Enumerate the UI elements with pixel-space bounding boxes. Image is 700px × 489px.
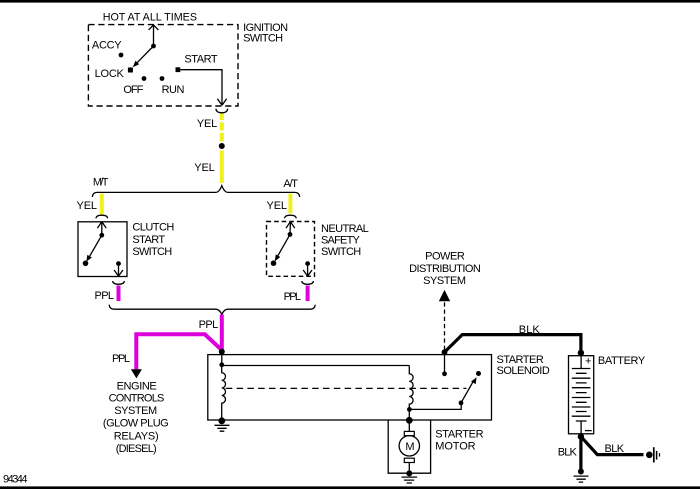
node: PPL junction at solenoid: [219, 349, 225, 355]
wire PPL merged vertical: [220, 315, 224, 351]
svg-text:BATTERY: BATTERY: [598, 355, 646, 367]
solenoid: hold-in winding coil: [409, 366, 413, 420]
node: battery negative junction: [578, 433, 584, 439]
svg-text:SWITCH: SWITCH: [321, 246, 361, 258]
node: pull-in winding ground: [218, 417, 225, 424]
connector female half above neutral safety switch: [285, 215, 297, 218]
starter motor: brush terminal bottom: [404, 458, 414, 462]
svg-text:SWITCH: SWITCH: [243, 33, 283, 45]
svg-text:HOT AT ALL TIMES: HOT AT ALL TIMES: [103, 11, 197, 23]
svg-text:OFF: OFF: [123, 84, 143, 96]
svg-text:YEL: YEL: [267, 200, 288, 212]
node: solenoid contact pivot: [459, 401, 464, 406]
clutch switch: movable arm with arrowhead: [86, 235, 102, 262]
neutral safety switch: output arrow down: [303, 266, 312, 276]
svg-text:SYSTEM: SYSTEM: [423, 275, 466, 287]
svg-text:PPL: PPL: [95, 290, 115, 302]
wire YEL vertical from ignition (solid lower run): [220, 151, 224, 184]
splice node on YEL wire: [219, 143, 225, 149]
solenoid: winding to contact wire: [409, 404, 461, 410]
ignition switch dashed box: [88, 25, 238, 106]
node: starter motor ground: [406, 470, 412, 476]
ground symbol (solenoid): [215, 425, 230, 431]
wire YEL A/T branch: [288, 194, 292, 214]
svg-text:MOTOR: MOTOR: [435, 441, 475, 453]
svg-text:ENGINE: ENGINE: [117, 381, 157, 393]
ignition switch: ACCY contact node: [119, 53, 124, 58]
starter motor: brush terminal top: [404, 431, 414, 435]
ignition switch: wire to HOT with open arrow up: [149, 25, 159, 46]
svg-text:ACCY: ACCY: [92, 40, 122, 52]
node: contact arm tip: [476, 371, 481, 376]
svg-text:STARTER: STARTER: [497, 354, 544, 366]
bottom border bar: [0, 486, 700, 489]
label IGNITION SWITCH: [243, 22, 288, 45]
svg-text:M: M: [405, 441, 414, 453]
node: starter motor feed: [406, 417, 413, 424]
top border bar: [0, 0, 700, 3]
solenoid: battery stub wire: [444, 352, 446, 373]
neutral safety switch dashed box: [267, 222, 315, 277]
dashed mechanical link plunger: [226, 387, 467, 389]
svg-text:+: +: [585, 356, 591, 368]
node: battery positive junction: [578, 350, 584, 356]
svg-text:POWER: POWER: [425, 251, 465, 263]
label STARTER SOLENOID: [497, 354, 550, 377]
connector female half below neutral safety switch: [302, 281, 314, 284]
svg-text:CLUTCH: CLUTCH: [132, 221, 174, 233]
node: ground connection: [578, 469, 584, 475]
svg-text:PPL: PPL: [112, 353, 130, 365]
solenoid: wire to hold-in winding: [222, 365, 409, 367]
clutch switch: arm end node: [83, 261, 89, 267]
ignition switch: LOCK terminal: [128, 68, 133, 73]
svg-text:START: START: [132, 234, 165, 246]
svg-text:SYSTEM: SYSTEM: [114, 405, 157, 417]
ignition switch: RUN contact node: [160, 76, 165, 81]
wire BLK battery cable to solenoid: [445, 335, 581, 352]
svg-text:SOLENOID: SOLENOID: [497, 365, 550, 377]
ignition switch: OFF contact node: [142, 76, 147, 81]
starter motor: ground stub: [408, 463, 410, 474]
brace splitting YEL to M/T and A/T branches: [92, 186, 299, 197]
label POWER DISTRIBUTION SYSTEM: [409, 251, 481, 288]
solenoid: pull-in winding coil: [222, 365, 226, 420]
svg-text:(DIESEL): (DIESEL): [116, 443, 157, 455]
node: battery feed junction: [442, 349, 448, 355]
svg-text:(GLOW PLUG: (GLOW PLUG: [103, 418, 169, 430]
neutral safety switch: output contact node: [305, 261, 310, 266]
clutch switch: output arrow down: [114, 266, 123, 276]
node: battery-side fixed contact: [442, 371, 447, 376]
battery box: [569, 356, 594, 434]
connector: engine block terminal: [646, 447, 660, 462]
svg-text:DISTRIBUTION: DISTRIBUTION: [409, 263, 481, 275]
svg-text:SAFETY: SAFETY: [321, 235, 361, 247]
svg-text:NEUTRAL: NEUTRAL: [321, 223, 369, 235]
wire PPL from clutch switch: [117, 286, 121, 302]
svg-text:94344: 94344: [3, 474, 28, 486]
battery plates: [572, 369, 591, 422]
label NEUTRAL SAFETY SWITCH: [321, 223, 369, 258]
starter motor M body: [399, 436, 419, 456]
svg-text:STARTER: STARTER: [435, 429, 483, 441]
wire YEL vertical from ignition (dashed upper run): [220, 114, 224, 142]
ignition switch: START terminal: [176, 67, 181, 72]
svg-text:YEL: YEL: [197, 118, 218, 130]
starter motor: feed stub: [408, 420, 410, 431]
arrowhead to power distribution system: [439, 290, 450, 301]
wire PPL branch to engine controls: [136, 334, 221, 369]
ground symbol (battery): [574, 476, 589, 482]
brace merging PPL branches: [109, 305, 315, 315]
dashed wire to power distribution system: [444, 302, 446, 350]
connector C1 female half (below ignition box): [216, 109, 228, 113]
svg-text:SWITCH: SWITCH: [132, 246, 172, 258]
svg-text:PPL: PPL: [199, 319, 219, 331]
svg-text:A/T: A/T: [283, 178, 298, 190]
neutral safety switch: arm end node: [271, 260, 277, 266]
arrowhead to engine controls system: [131, 369, 142, 378]
svg-text:RELAYS): RELAYS): [114, 430, 159, 442]
svg-text:PPL: PPL: [284, 291, 301, 303]
svg-text:M/T: M/T: [93, 177, 109, 189]
svg-text:BLK: BLK: [558, 447, 578, 459]
solenoid: contact arm with arrowhead: [461, 377, 477, 403]
label ENGINE CONTROLS SYSTEM (GLOW PLUG RELAYS) (DIESEL): [103, 381, 169, 456]
clutch switch: output contact node: [116, 261, 121, 266]
ground symbol (starter motor): [402, 477, 418, 483]
solenoid: feed wire into box: [221, 352, 223, 365]
svg-text:START: START: [184, 53, 217, 65]
svg-text:RUN: RUN: [162, 84, 185, 96]
node: motor-side contact junction: [407, 407, 412, 412]
label STARTER MOTOR: [435, 429, 483, 453]
label CLUTCH START SWITCH: [132, 221, 174, 258]
wire START terminal to connector with open arrow down: [180, 70, 226, 106]
starter solenoid box: [208, 355, 492, 420]
neutral safety switch: pivot node: [288, 232, 293, 237]
svg-text:CONTROLS: CONTROLS: [109, 393, 165, 405]
starter motor enclosure: [388, 420, 430, 473]
svg-text:YEL: YEL: [194, 162, 215, 174]
neutral safety switch: movable arm with arrowhead: [275, 234, 290, 261]
wire BLK battery negative to ground: [579, 437, 582, 469]
connector female half above clutch start switch: [96, 215, 108, 218]
battery internal stub top: [580, 356, 582, 369]
ignition switch: rotor pivot node: [151, 44, 156, 49]
svg-text:BLK: BLK: [519, 324, 541, 336]
clutch start switch box: [78, 222, 127, 277]
solenoid: coil tap node: [219, 362, 224, 367]
clutch switch: pivot node: [99, 233, 104, 238]
battery internal stub bottom: [580, 421, 582, 434]
wire BLK battery negative to engine block: [581, 437, 644, 455]
connector female half below clutch start switch: [113, 281, 125, 284]
wire PPL from neutral safety switch: [306, 286, 310, 302]
svg-text:LOCK: LOCK: [95, 68, 125, 80]
svg-text:BLK: BLK: [605, 443, 625, 455]
neutral safety switch: input arrow up: [286, 222, 295, 235]
wire YEL M/T branch: [100, 194, 104, 215]
ignition switch: rotor arm to LOCK with solid arrowhead: [133, 46, 154, 67]
battery negative sign: [585, 430, 592, 432]
clutch switch: input arrow up: [97, 222, 106, 236]
svg-text:YEL: YEL: [77, 200, 98, 212]
